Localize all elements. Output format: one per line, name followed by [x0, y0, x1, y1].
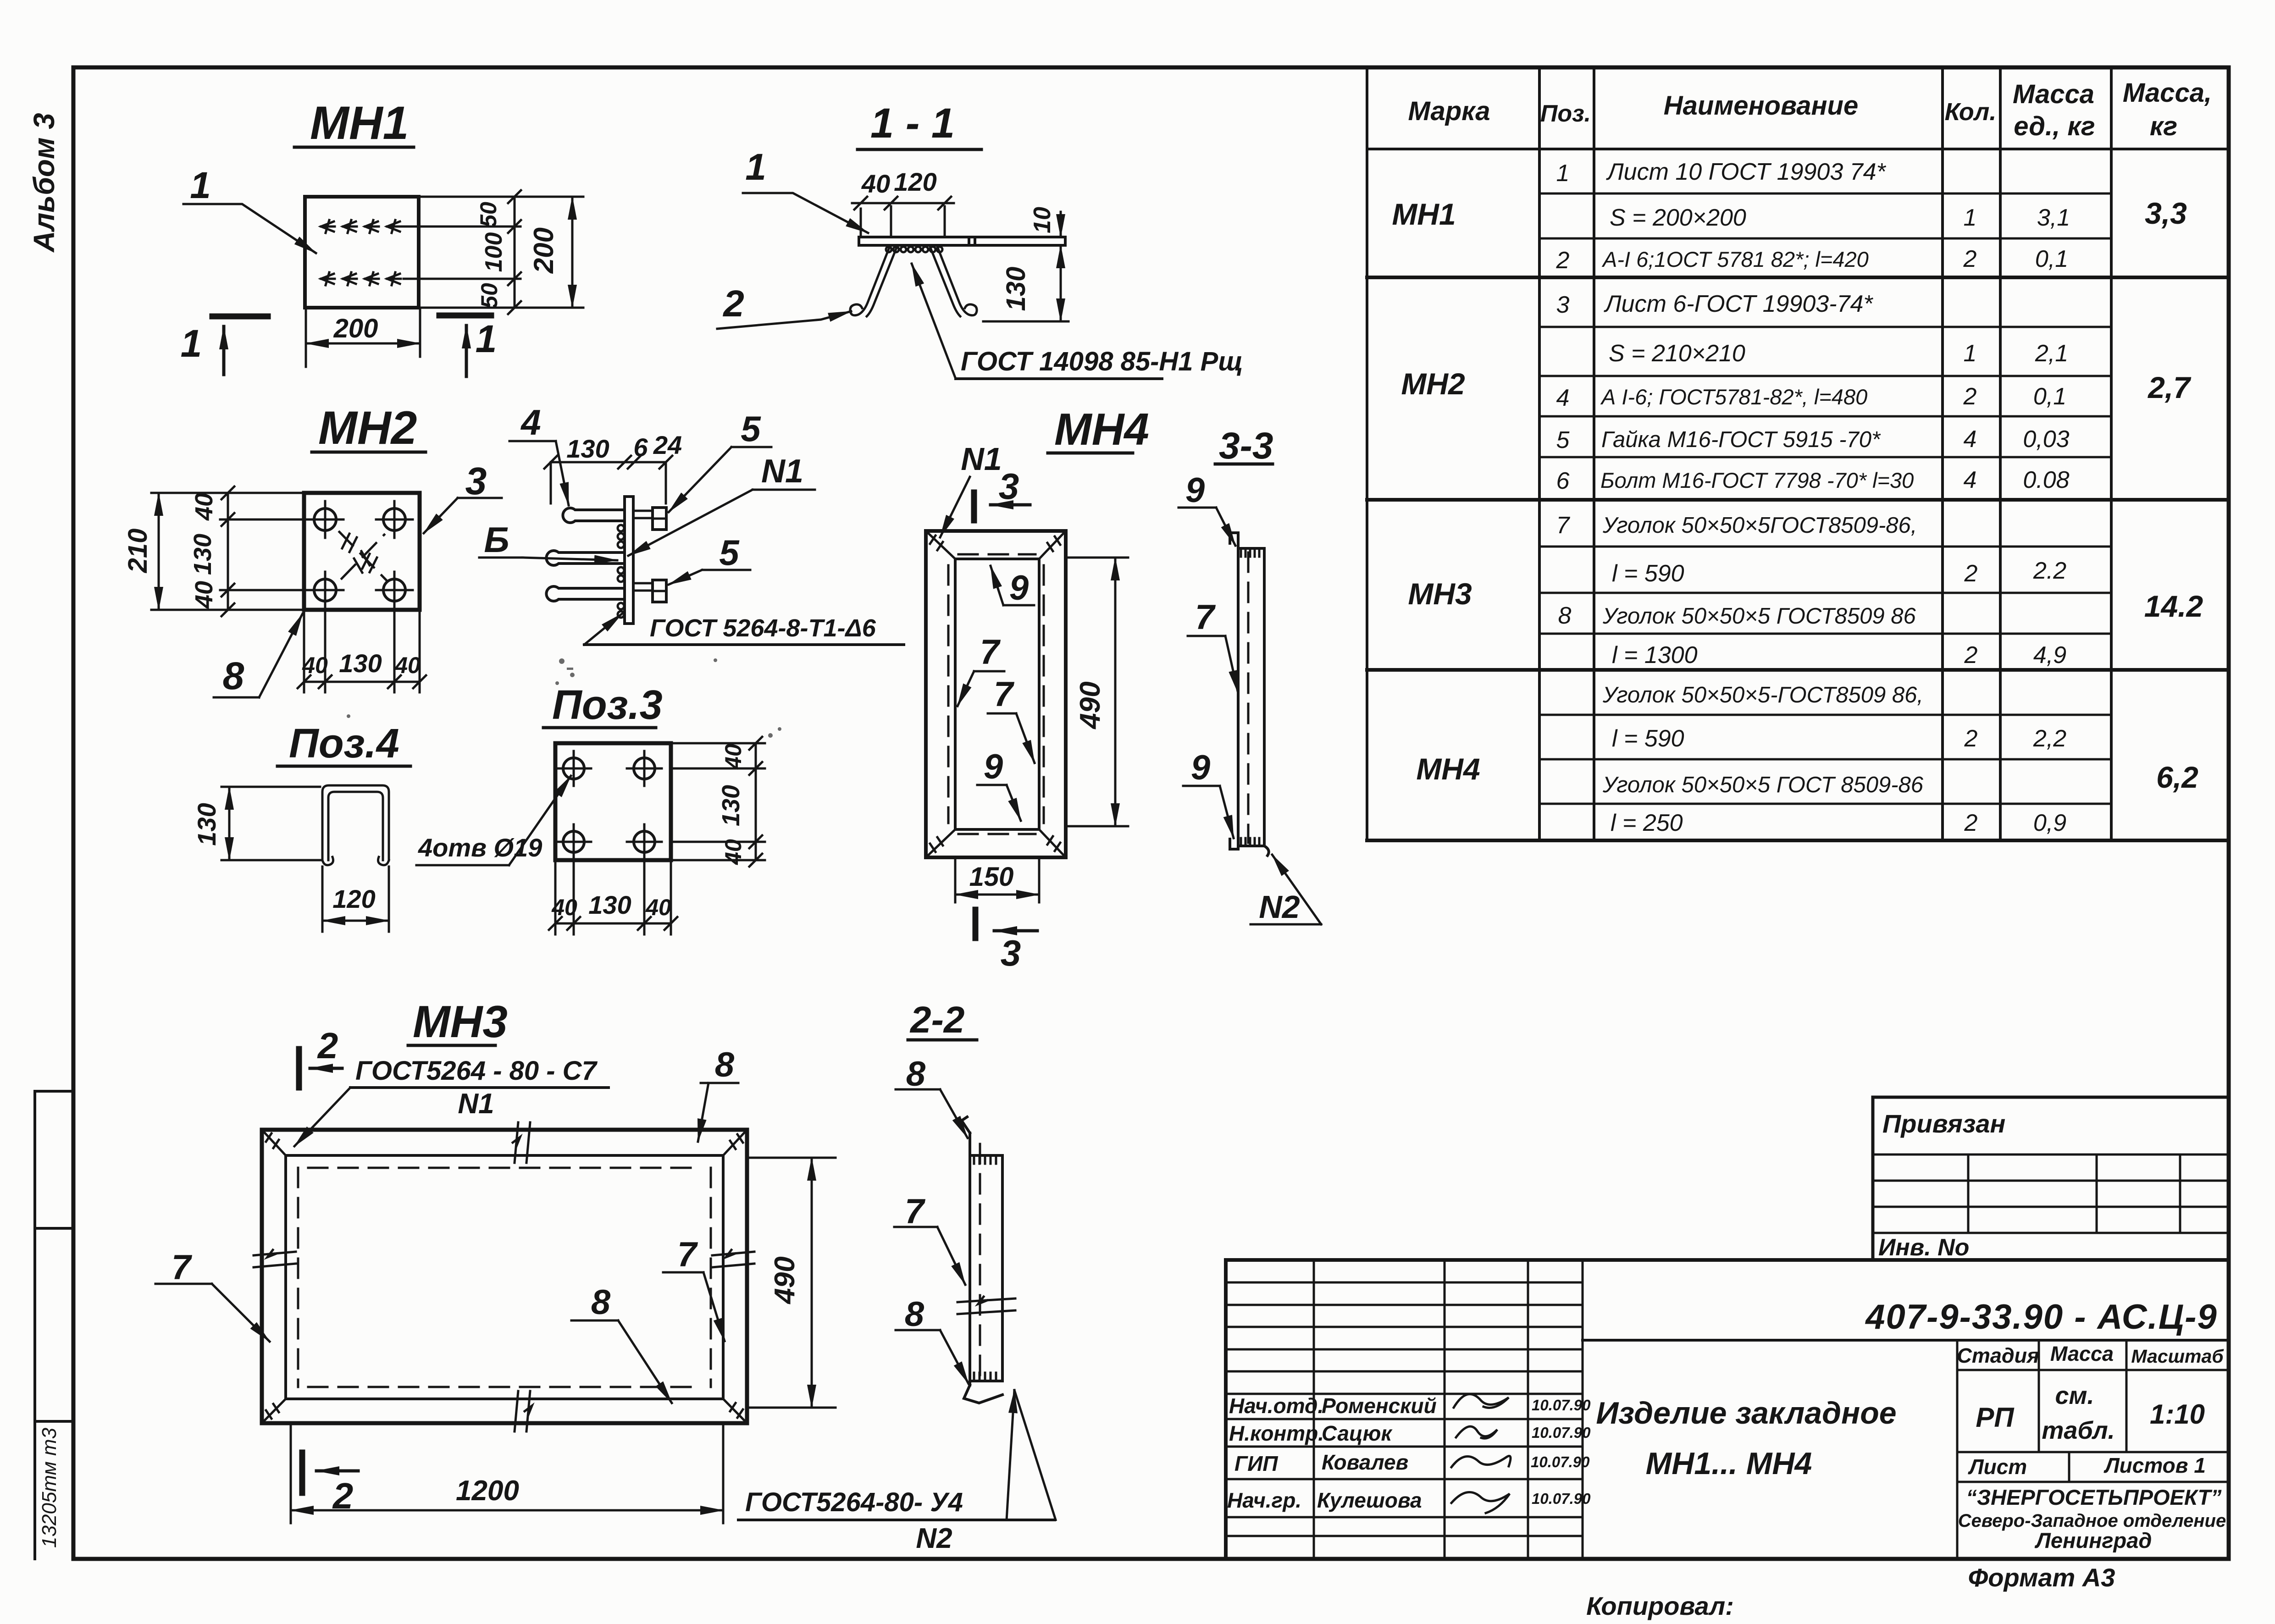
dimension 490 right [747, 1158, 836, 1408]
svg-text:407-9-33.90 - АС.Ц-9: 407-9-33.90 - АС.Ц-9 [1865, 1298, 2218, 1337]
leader 7 upper [958, 633, 1004, 706]
leader 3 [424, 459, 502, 533]
svg-text:МН1: МН1 [1392, 197, 1456, 231]
leader 7 left [155, 1248, 270, 1342]
svg-text:Стадия: Стадия [1957, 1344, 2039, 1367]
svg-text:Лист: Лист [1968, 1455, 2027, 1479]
svg-text:Альбом 3: Альбом 3 [28, 113, 61, 253]
svg-text:табл.: табл. [2042, 1417, 2114, 1444]
weld note GOST 5264-80-C7 with N1 [294, 1056, 609, 1146]
svg-text:ГОСТ 5264-8-Т1-Δ6: ГОСТ 5264-8-Т1-Δ6 [650, 614, 876, 642]
dimension 130 [983, 245, 1068, 321]
svg-text:Лист 10 ГОСТ 19903 74*: Лист 10 ГОСТ 19903 74* [1606, 159, 1887, 185]
svg-text:7: 7 [980, 633, 1001, 672]
plate poz.3 (MH2) [304, 493, 420, 610]
anchor leg right (poz.2) [937, 247, 977, 315]
svg-text:130: 130 [717, 785, 745, 826]
hole TR [627, 751, 662, 786]
leader 8 bottom [896, 1295, 969, 1384]
svg-text:ГИП: ГИП [1234, 1452, 1278, 1475]
frame MH3 outer [262, 1130, 747, 1423]
plate poz.1 (MH1) [305, 197, 419, 308]
svg-text:5: 5 [1556, 427, 1570, 453]
weld note GOST 14098 [912, 264, 1243, 379]
svg-text:Нач.отд.: Нач.отд. [1229, 1394, 1323, 1418]
signature area grid [1314, 1260, 1583, 1559]
svg-text:40: 40 [645, 895, 671, 920]
svg-text:2: 2 [1963, 246, 1977, 272]
hidden edge dashed [979, 1144, 981, 1379]
document number [1583, 1339, 2229, 1342]
svg-text:МН1... МН4: МН1... МН4 [1646, 1446, 1812, 1481]
svg-text:3-3: 3-3 [1219, 425, 1273, 467]
angle profile section 2-2 [962, 1117, 1002, 1403]
svg-text:Болт М16-ГОСТ 7798 -70* l=30: Болт М16-ГОСТ 7798 -70* l=30 [1600, 468, 1914, 492]
svg-text:6,2: 6,2 [2156, 760, 2198, 794]
hole BL [556, 824, 591, 859]
svg-text:кг: кг [2150, 111, 2177, 141]
stage/mass/scale header [1957, 1340, 2229, 1559]
svg-text:4,9: 4,9 [2033, 642, 2066, 668]
svg-text:9: 9 [1191, 748, 1210, 787]
svg-text:10: 10 [1029, 207, 1056, 233]
svg-text:Уголок 50×50×5-ГОСТ8509 86,: Уголок 50×50×5-ГОСТ8509 86, [1602, 683, 1923, 707]
svg-text:Роменский: Роменский [1322, 1394, 1437, 1418]
svg-text:490: 490 [769, 1256, 801, 1304]
svg-text:l = 1300: l = 1300 [1612, 642, 1698, 668]
extension lines right [403, 197, 583, 308]
angle profile section [1230, 533, 1269, 856]
svg-text:Марка: Марка [1408, 96, 1490, 126]
svg-text:Формат А3: Формат А3 [1968, 1563, 2115, 1592]
corner chamfers with weld hatching [262, 1130, 747, 1423]
svg-text:6: 6 [633, 433, 648, 462]
section mark 2 top [299, 1025, 342, 1088]
svg-text:Поз.: Поз. [1540, 100, 1591, 127]
svg-text:Масса: Масса [2013, 79, 2094, 109]
svg-text:Уголок 50×50×5 ГОСТ 8509-86: Уголок 50×50×5 ГОСТ 8509-86 [1602, 773, 1924, 797]
svg-text:14.2: 14.2 [2144, 589, 2203, 623]
weld node mark N1 [940, 441, 1002, 537]
plate poz.3 [555, 743, 671, 860]
svg-text:5: 5 [741, 409, 761, 449]
weld note GOST 5264-80-U4 with N2 [738, 1390, 1056, 1554]
svg-text:Ковалев: Ковалев [1322, 1450, 1408, 1474]
svg-text:4: 4 [1964, 467, 1977, 493]
dimension 120 [322, 867, 389, 932]
svg-text:Масса,: Масса, [2123, 78, 2212, 108]
svg-text:1: 1 [1964, 204, 1977, 231]
leader 8 top [896, 1055, 968, 1138]
svg-text:120: 120 [894, 167, 936, 196]
svg-text:40: 40 [720, 839, 746, 865]
svg-text:5: 5 [719, 532, 740, 573]
dimension 1200 [291, 1425, 723, 1523]
svg-text:24: 24 [653, 431, 682, 459]
leader 9 top [1179, 471, 1235, 546]
svg-text:Листов 1: Листов 1 [2103, 1453, 2206, 1477]
corner chamfers with weld hatching [926, 531, 1066, 857]
svg-text:“ЗНЕРГОСЕТЬПРОЕКТ”: “ЗНЕРГОСЕТЬПРОЕКТ” [1966, 1485, 2222, 1509]
svg-text:13205тм т3: 13205тм т3 [38, 1427, 61, 1548]
dimension 490 [1066, 558, 1128, 826]
weld symbols row 1 [321, 220, 401, 233]
svg-text:2: 2 [1963, 383, 1977, 410]
svg-text:N1: N1 [458, 1088, 494, 1120]
svg-text:2: 2 [1964, 642, 1978, 668]
svg-text:2-2: 2-2 [909, 999, 965, 1041]
section mark 3 top [974, 466, 1030, 520]
dimension chain 40/130/40 bottom [549, 890, 677, 930]
bolt poz.6 bottom with nut poz.5 [633, 580, 666, 602]
anchor hook poz.4 bottom [546, 586, 625, 601]
svg-text:40: 40 [861, 169, 890, 198]
svg-text:МН2: МН2 [318, 402, 417, 454]
table grid [1367, 67, 2229, 840]
svg-text:3,1: 3,1 [2037, 204, 2070, 231]
svg-text:40: 40 [302, 652, 328, 678]
weld symbols row 2 [321, 272, 401, 285]
svg-text:10.07.90: 10.07.90 [1532, 1397, 1591, 1414]
svg-text:7: 7 [1195, 598, 1216, 637]
svg-text:130: 130 [189, 534, 216, 575]
table header [1408, 78, 2212, 141]
weld node mark N2 [1251, 855, 1321, 925]
diagonal weld marks [339, 532, 387, 581]
svg-text:2: 2 [1556, 247, 1570, 274]
svg-text:9: 9 [1185, 471, 1205, 510]
svg-text:2,1: 2,1 [2035, 340, 2068, 367]
frame MH4 inner [955, 559, 1039, 829]
svg-text:2.2: 2.2 [2033, 558, 2066, 584]
weld tick rows [1241, 550, 1259, 845]
dimension 200 vertical [528, 197, 572, 308]
dimension chain 40/130/40 left [189, 486, 234, 616]
dimension 200 bottom [306, 308, 420, 367]
filing margin strip [35, 1091, 73, 1559]
hole BR [627, 824, 662, 859]
leader 9 lower [977, 747, 1021, 821]
svg-text:Поз.3: Поз.3 [552, 682, 663, 728]
svg-text:Сацюк: Сацюк [1322, 1421, 1393, 1445]
svg-text:6: 6 [1556, 468, 1570, 494]
svg-text:ГОСТ5264 - 80 - С7: ГОСТ5264 - 80 - С7 [355, 1056, 598, 1086]
svg-text:МН3: МН3 [1408, 577, 1472, 611]
svg-text:ед., кг: ед., кг [2014, 111, 2095, 141]
svg-text:2: 2 [1964, 810, 1978, 836]
svg-text:S = 200×200: S = 200×200 [1610, 204, 1746, 231]
svg-text:8: 8 [715, 1045, 735, 1084]
svg-text:8: 8 [1558, 602, 1572, 629]
svg-text:Б: Б [484, 519, 509, 560]
svg-text:Кол.: Кол. [1945, 98, 1997, 126]
extension lines bottom [304, 610, 420, 692]
anchor hook poz.4 middle [546, 551, 625, 565]
svg-text:Масштаб: Масштаб [2131, 1346, 2224, 1367]
svg-text:2: 2 [1964, 725, 1978, 752]
channel poz.4 [322, 785, 389, 865]
svg-text:ГОСТ5264-80- У4: ГОСТ5264-80- У4 [745, 1487, 963, 1517]
svg-text:1: 1 [190, 165, 211, 206]
svg-text:N1: N1 [961, 441, 1002, 477]
svg-text:3: 3 [465, 459, 487, 503]
section mark 2 bottom [302, 1453, 358, 1516]
note 4 holes d19 [416, 776, 571, 865]
svg-text:N1: N1 [761, 453, 803, 490]
weld dots on plate [618, 525, 624, 618]
svg-text:130: 130 [192, 803, 221, 845]
svg-text:2: 2 [317, 1025, 338, 1066]
svg-text:4: 4 [1556, 385, 1570, 411]
svg-text:7: 7 [905, 1192, 926, 1231]
signatures rows [1227, 1394, 1437, 1512]
svg-text:130: 130 [566, 434, 609, 463]
svg-text:А-I 6;1ОСТ 5781 82*; l=420: А-I 6;1ОСТ 5781 82*; l=420 [1601, 247, 1869, 271]
svg-text:130: 130 [339, 649, 382, 678]
svg-text:Уголок 50×50×5 ГОСТ8509 86: Уголок 50×50×5 ГОСТ8509 86 [1602, 604, 1916, 629]
leader 8 bottom [571, 1283, 672, 1403]
section mark 3 bottom [975, 910, 1037, 973]
leader 7 [894, 1192, 965, 1285]
svg-text:Изделие закладное: Изделие закладное [1596, 1396, 1896, 1431]
extension lines bottom [555, 860, 671, 934]
svg-text:130: 130 [588, 890, 631, 919]
section mark 1 left [181, 316, 268, 375]
svg-text:0,03: 0,03 [2023, 426, 2069, 453]
svg-text:МН3: МН3 [413, 996, 508, 1047]
svg-text:1:10: 1:10 [2150, 1399, 2205, 1430]
svg-text:Копировал:: Копировал: [1586, 1591, 1734, 1620]
svg-text:1: 1 [745, 146, 766, 188]
svg-text:7: 7 [172, 1248, 193, 1287]
svg-text:S = 210×210: S = 210×210 [1609, 340, 1745, 367]
svg-text:2: 2 [722, 283, 744, 325]
svg-text:1: 1 [476, 317, 497, 360]
section mark 1 right [439, 315, 497, 376]
svg-text:1: 1 [1556, 160, 1570, 187]
leader 8 top right [698, 1045, 738, 1142]
dimension 130 [192, 787, 320, 860]
svg-text:8: 8 [223, 654, 244, 697]
svg-text:8: 8 [591, 1283, 611, 1322]
svg-text:Ленинград: Ленинград [2035, 1528, 2152, 1552]
svg-text:Наименование: Наименование [1664, 91, 1858, 121]
hidden angle edges dashed [298, 1168, 711, 1387]
total mass cells [2144, 196, 2203, 794]
dimension chain 40/130/40 bottom [298, 649, 426, 688]
leader 1 [183, 165, 316, 253]
svg-text:0,9: 0,9 [2033, 810, 2066, 836]
svg-text:Нач.гр.: Нач.гр. [1227, 1488, 1301, 1512]
svg-text:l = 250: l = 250 [1611, 810, 1683, 836]
svg-text:Н.контр.: Н.контр. [1229, 1421, 1324, 1445]
leader 1 [743, 146, 868, 233]
svg-text:А I-6; ГОСТ5781-82*, l=480: А I-6; ГОСТ5781-82*, l=480 [1600, 385, 1867, 409]
svg-text:0.08: 0.08 [2023, 467, 2069, 493]
break mark top [513, 1122, 530, 1163]
svg-text:4: 4 [1964, 426, 1977, 453]
hole with cross (top-right) [376, 501, 413, 538]
anchor leg left (poz.2) [850, 247, 890, 315]
svg-text:8: 8 [905, 1295, 924, 1334]
svg-text:120: 120 [332, 884, 375, 913]
svg-text:2,2: 2,2 [2033, 725, 2066, 752]
svg-text:10.07.90: 10.07.90 [1532, 1424, 1591, 1441]
svg-text:МН4: МН4 [1054, 404, 1149, 454]
svg-text:1: 1 [181, 322, 202, 365]
svg-text:40: 40 [551, 895, 577, 920]
svg-text:1200: 1200 [456, 1475, 519, 1507]
svg-text:3: 3 [999, 466, 1019, 507]
break mark left [254, 1250, 296, 1267]
svg-text:N2: N2 [916, 1523, 952, 1554]
svg-text:Гайка М16-ГОСТ 5915 -70*: Гайка М16-ГОСТ 5915 -70* [1601, 427, 1881, 452]
leader 2 [717, 283, 851, 329]
svg-text:40: 40 [720, 744, 746, 770]
signature squiggles [1451, 1394, 1511, 1513]
svg-text:100: 100 [481, 232, 507, 272]
frame MH4 outer [926, 531, 1066, 857]
svg-text:1 - 1: 1 - 1 [870, 100, 955, 147]
svg-text:7: 7 [677, 1235, 698, 1274]
svg-text:40: 40 [394, 652, 421, 678]
svg-text:130: 130 [1001, 267, 1031, 311]
hole with cross (bottom-right) [376, 572, 413, 608]
leader 5 top [669, 409, 771, 512]
dimension 130 / 6 / 24 [544, 431, 682, 503]
svg-text:Кулешова: Кулешова [1317, 1488, 1422, 1512]
svg-text:1: 1 [1964, 340, 1977, 367]
hidden angle edges (dashed) [948, 554, 1044, 834]
svg-text:490: 490 [1074, 681, 1106, 729]
dimension 150 [955, 859, 1039, 902]
break mark bottom [515, 1391, 532, 1431]
svg-text:200: 200 [333, 314, 378, 343]
extension lines left [151, 493, 304, 610]
svg-text:200: 200 [528, 227, 559, 274]
leader 7 [1188, 598, 1238, 693]
svg-text:10.07.90: 10.07.90 [1532, 1490, 1591, 1507]
leader 9 bottom [1183, 748, 1234, 838]
dimension 210 [123, 493, 159, 610]
svg-text:8: 8 [906, 1055, 926, 1094]
svg-text:Инв. No: Инв. No [1878, 1234, 1969, 1261]
svg-text:МН4: МН4 [1416, 752, 1480, 786]
dimension chain 40/130/40 right [717, 737, 762, 867]
dimension 10 thickness [1029, 207, 1061, 271]
scan smudges [347, 658, 781, 738]
svg-text:4: 4 [520, 402, 541, 442]
hidden edge dashed [1247, 552, 1250, 843]
svg-text:Уголок 50×50×5ГОСТ8509-86,: Уголок 50×50×5ГОСТ8509-86, [1602, 513, 1917, 538]
bolt poz.6 top with nut poz.5 [633, 508, 666, 530]
svg-text:МН2: МН2 [1401, 367, 1465, 401]
svg-text:0,1: 0,1 [2033, 383, 2066, 410]
hole TL [556, 751, 591, 786]
plate poz.3 edge view [625, 497, 633, 624]
svg-text:2: 2 [1964, 560, 1978, 587]
leader 7 lower [988, 675, 1035, 763]
svg-text:7: 7 [994, 675, 1015, 714]
svg-text:40: 40 [190, 493, 218, 521]
dimension chain 50/100/50 [476, 190, 521, 314]
svg-text:ГОСТ 14098 85-Н1 Рщ: ГОСТ 14098 85-Н1 Рщ [961, 347, 1243, 376]
break mark middle [958, 1297, 1015, 1314]
svg-text:3,3: 3,3 [2145, 196, 2187, 230]
svg-text:9: 9 [1009, 569, 1029, 608]
svg-text:2,7: 2,7 [2147, 370, 2192, 404]
mark cells [1392, 197, 1480, 786]
svg-text:Привязан: Привязан [1882, 1109, 2005, 1138]
leader 7 right [663, 1235, 725, 1341]
svg-text:9: 9 [984, 747, 1003, 786]
svg-text:3: 3 [1001, 933, 1021, 973]
svg-text:см.: см. [2055, 1382, 2094, 1409]
leader 5 bottom [669, 532, 750, 585]
hole with cross (top-left) [307, 501, 343, 538]
svg-text:3: 3 [1556, 292, 1570, 318]
svg-text:50: 50 [476, 283, 502, 309]
anchor hook poz.4 top [563, 508, 625, 523]
weld node mark N1 [628, 453, 815, 556]
svg-text:l = 590: l = 590 [1612, 560, 1684, 587]
leader B [479, 519, 617, 560]
svg-text:МН1: МН1 [310, 97, 409, 149]
leader 8 [214, 613, 303, 697]
svg-text:50: 50 [476, 202, 501, 227]
svg-text:Лист 6-ГОСТ 19903-74*: Лист 6-ГОСТ 19903-74* [1604, 291, 1873, 317]
table rows text [1556, 159, 2070, 836]
svg-text:4отв Ø19: 4отв Ø19 [418, 833, 542, 862]
leader 9 upper [991, 566, 1034, 608]
svg-text:40: 40 [190, 581, 218, 609]
weld note GOST 5264-8-T1 [584, 613, 904, 645]
plate in section [859, 237, 1065, 245]
break mark right [712, 1250, 754, 1267]
svg-text:210: 210 [123, 529, 153, 574]
hole with cross (bottom-left) [307, 572, 343, 608]
svg-text:РП: РП [1976, 1402, 2015, 1433]
svg-text:l = 590: l = 590 [1612, 725, 1684, 752]
svg-text:7: 7 [1556, 512, 1571, 539]
svg-text:150: 150 [969, 862, 1014, 892]
svg-text:0,1: 0,1 [2035, 246, 2068, 272]
leader 4 [509, 402, 569, 505]
svg-text:Поз.4: Поз.4 [289, 721, 399, 767]
svg-text:10.07.90: 10.07.90 [1531, 1453, 1590, 1470]
svg-text:N2: N2 [1259, 889, 1300, 925]
svg-text:Масса: Масса [2050, 1342, 2114, 1365]
extension lines right [671, 743, 765, 860]
frame MH3 inner [286, 1155, 723, 1399]
weld tick rows [974, 1157, 996, 1379]
weld dots under plate [886, 247, 942, 252]
dimension 40 120 [852, 167, 954, 235]
svg-text:2: 2 [332, 1475, 354, 1516]
